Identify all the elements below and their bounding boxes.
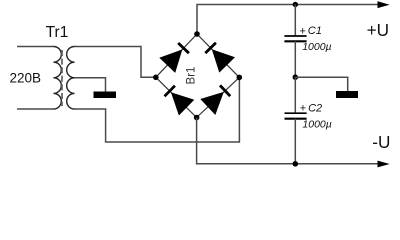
node top rail / C1 bbox=[293, 2, 298, 7]
svg-text:+U: +U bbox=[367, 20, 389, 40]
svg-text:1000µ: 1000µ bbox=[302, 118, 331, 130]
node bridge top bbox=[194, 31, 200, 37]
svg-text:+: + bbox=[300, 25, 306, 37]
transformer Tr1 primary winding bbox=[54, 47, 62, 110]
diode D2 (bridge right-top arm) bbox=[197, 34, 239, 77]
wire bottom rail bbox=[197, 118, 380, 164]
svg-text:C2: C2 bbox=[308, 102, 322, 114]
svg-text:Tr1: Tr1 bbox=[46, 24, 69, 41]
diode D3 (bridge left-bottom arm) bbox=[156, 77, 197, 117]
diode D4 (bridge right-bottom arm) bbox=[197, 77, 240, 117]
ground bar at center tap bbox=[94, 92, 117, 99]
svg-text:-U: -U bbox=[372, 132, 390, 152]
node bridge bottom bbox=[194, 115, 200, 121]
node bridge right bbox=[237, 75, 243, 81]
svg-text:C1: C1 bbox=[308, 25, 322, 37]
arrow +U output bbox=[378, 1, 390, 8]
wire primary bottom lead bbox=[17, 108, 54, 110]
svg-text:1000µ: 1000µ bbox=[302, 41, 331, 53]
wire secondary bottom lead bbox=[75, 77, 240, 142]
diode D1 (bridge left-top arm) bbox=[156, 34, 197, 77]
arrow -U output bbox=[378, 161, 390, 168]
capacitor C1 bbox=[284, 5, 306, 78]
wire primary top lead bbox=[17, 46, 54, 48]
wire mid rail to output common bbox=[295, 77, 347, 91]
wire center tap bbox=[75, 78, 106, 92]
transformer Tr1 secondary winding bbox=[67, 47, 75, 110]
transformer Tr1 core bbox=[61, 50, 63, 106]
ground bar at output common bbox=[336, 91, 358, 98]
wire top rail bbox=[197, 5, 380, 35]
svg-text:220B: 220B bbox=[10, 71, 42, 86]
wire secondary top lead bbox=[75, 47, 156, 78]
node bridge left bbox=[153, 75, 159, 81]
capacitor C2 bbox=[285, 77, 307, 164]
svg-text:+: + bbox=[300, 103, 306, 115]
node bottom rail / C2 bbox=[293, 161, 299, 167]
svg-text:Br1: Br1 bbox=[186, 67, 198, 85]
node mid rail bbox=[293, 74, 299, 80]
